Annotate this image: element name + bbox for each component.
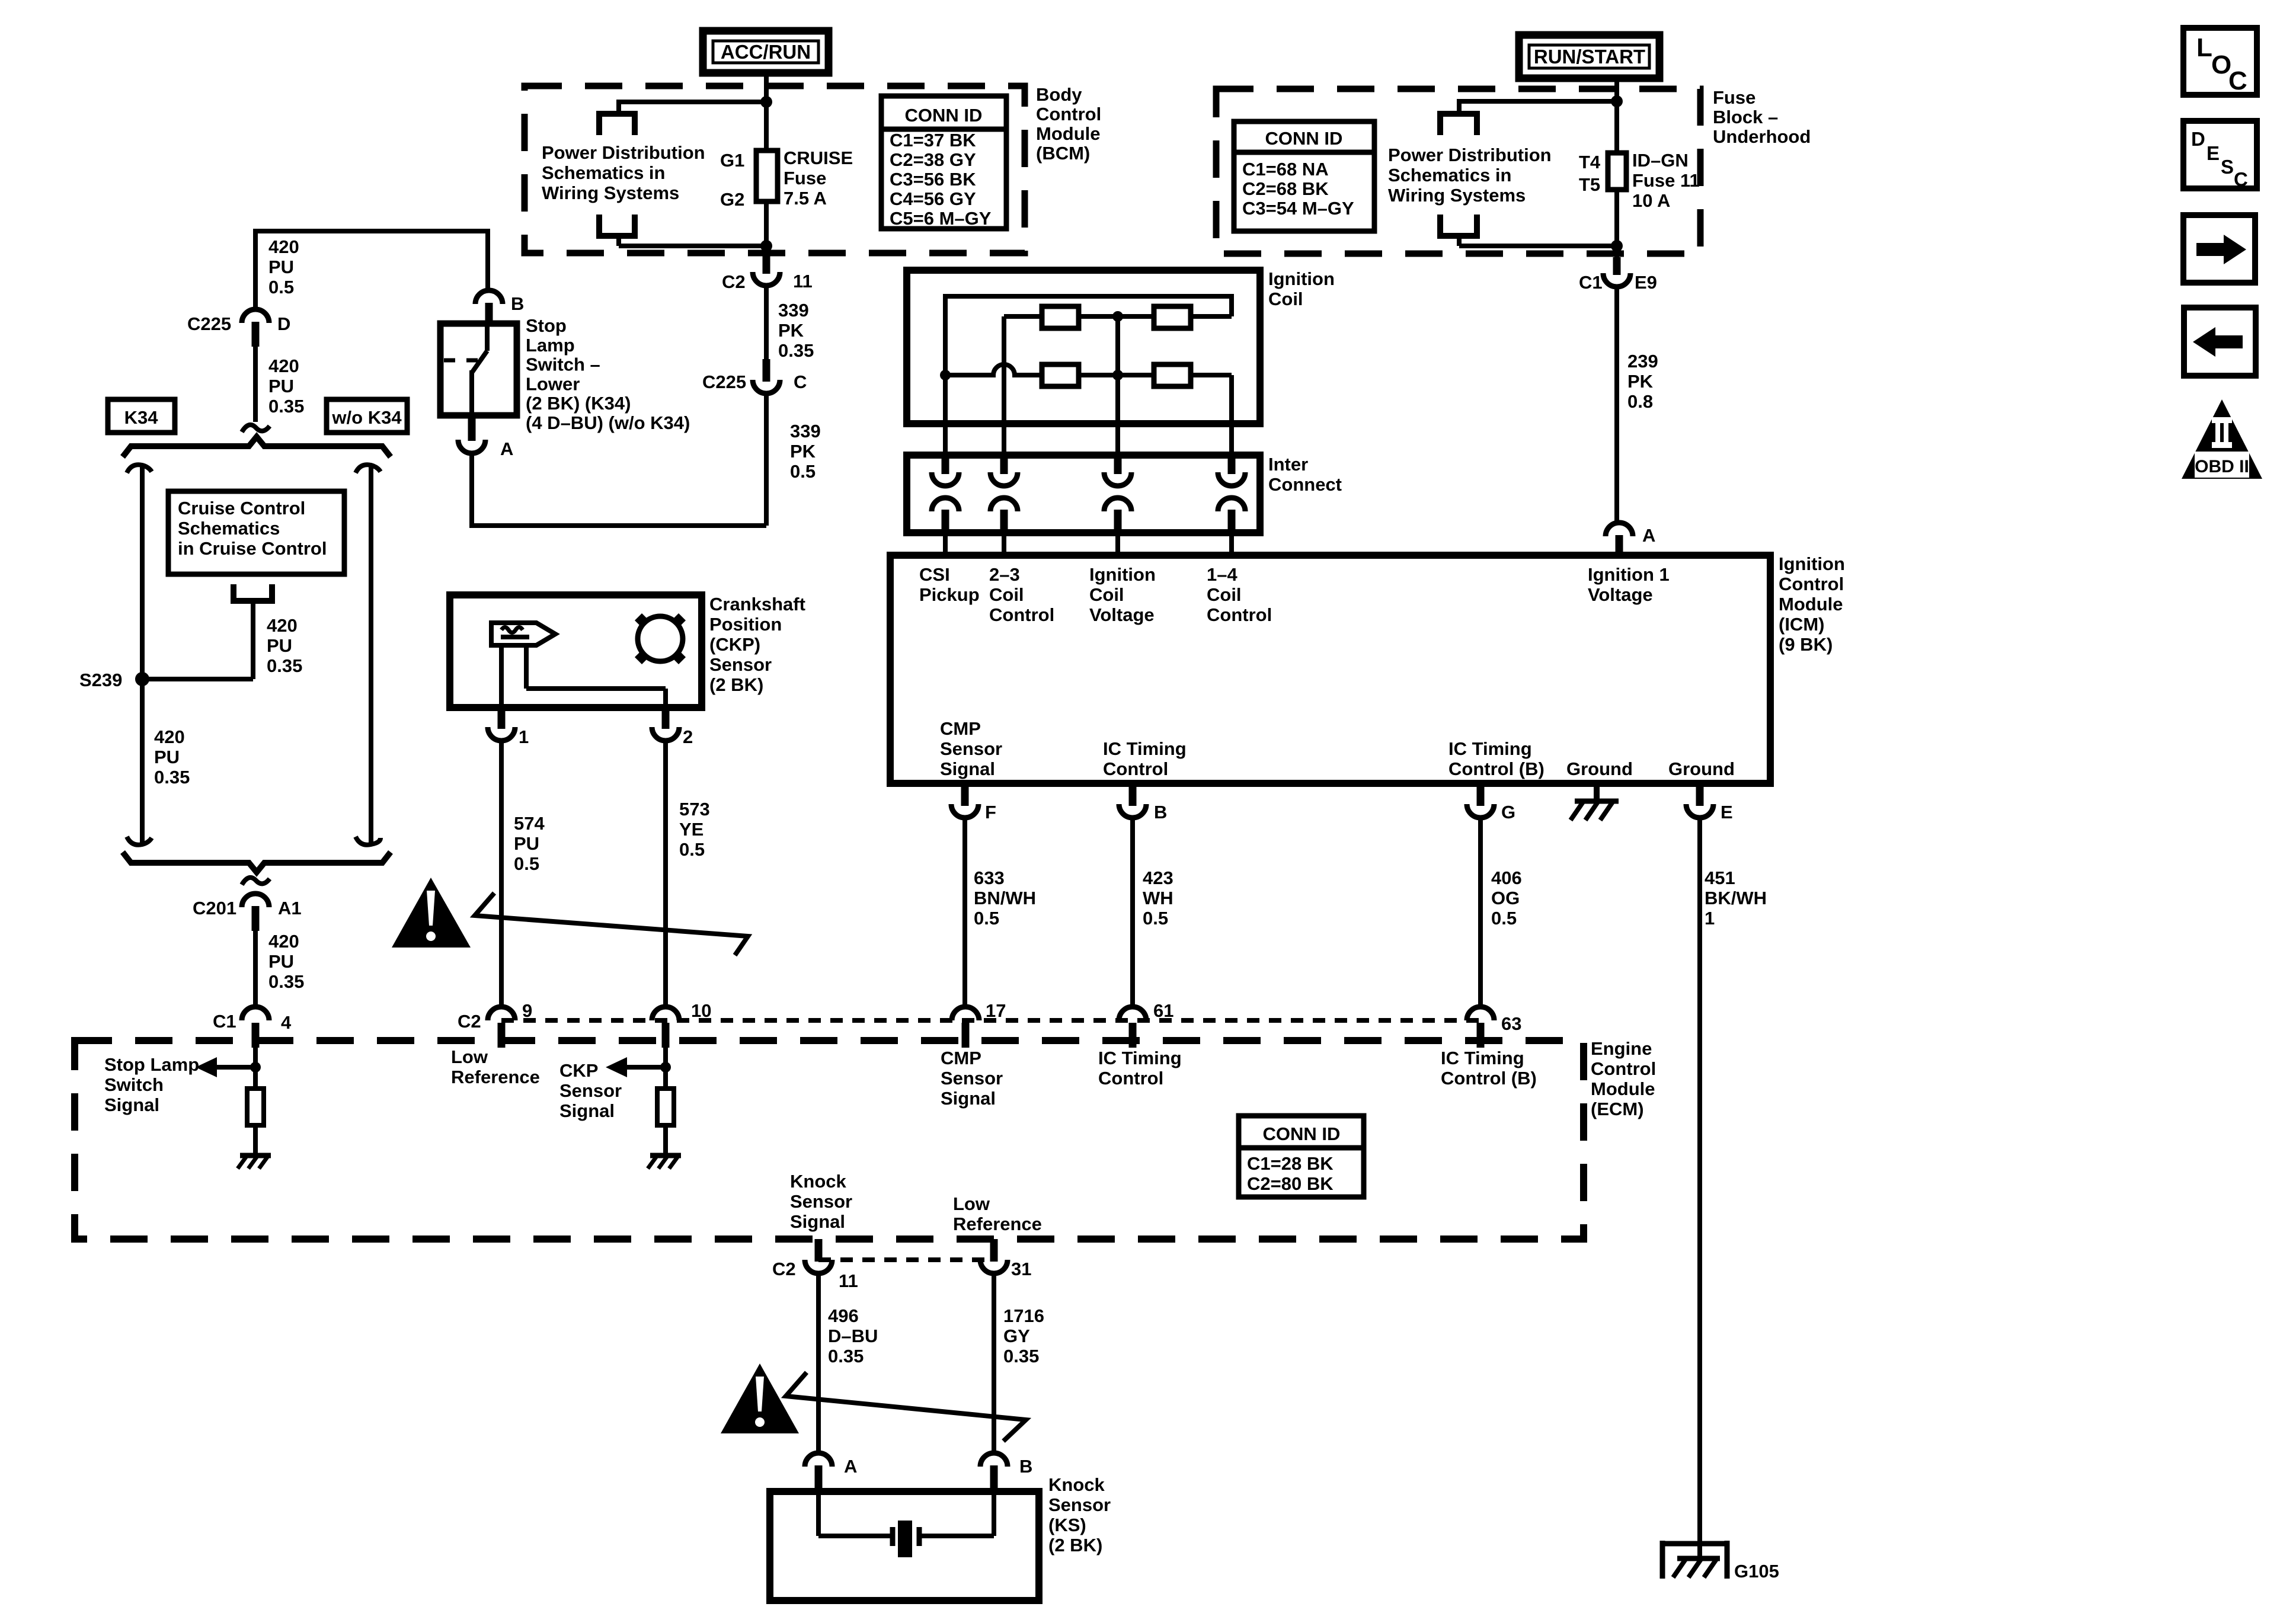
coil wire 1-4 vertical [1229, 375, 1234, 457]
label 573 YE 0.5 [679, 799, 710, 860]
wire loop top descender [616, 100, 621, 114]
icon arrow right [2183, 215, 2255, 283]
svg-text:Coil: Coil [1089, 584, 1124, 605]
svg-text:BK/WH: BK/WH [1705, 888, 1767, 908]
label 339 PK 0.35 [778, 300, 814, 361]
svg-text:(CKP): (CKP) [709, 634, 760, 655]
svg-text:Sensor: Sensor [559, 1080, 622, 1101]
svg-text:RUN/START: RUN/START [1534, 46, 1645, 68]
coil winding R1 [1042, 306, 1079, 328]
svg-text:C: C [794, 372, 807, 392]
svg-text:C2: C2 [458, 1011, 481, 1032]
ECM knock connector line (dotted) [818, 1257, 994, 1262]
CKP wire pin2 [526, 645, 666, 709]
svg-text:7.5 A: 7.5 A [784, 188, 827, 209]
label C [794, 372, 807, 392]
svg-text:CRUISE: CRUISE [784, 148, 853, 168]
option branch left hook bottom [127, 837, 152, 845]
svg-text:PU: PU [268, 951, 294, 972]
svg-text:B: B [1019, 1456, 1032, 1477]
label A [500, 438, 513, 459]
svg-text:A: A [1642, 525, 1655, 546]
svg-text:10: 10 [691, 1000, 711, 1021]
svg-text:Lamp: Lamp [526, 335, 575, 356]
svg-text:A: A [500, 438, 513, 459]
svg-text:(ECM): (ECM) [1591, 1099, 1644, 1119]
wire loop bottom descender [616, 236, 621, 246]
svg-text:Crankshaft: Crankshaft [709, 594, 805, 614]
label A [1642, 525, 1655, 546]
option branch right hook bottom [356, 837, 380, 845]
label C1 [1579, 272, 1603, 293]
svg-text:PK: PK [790, 441, 816, 462]
svg-text:573: 573 [679, 799, 710, 820]
svg-text:E: E [2207, 142, 2220, 164]
warning pointer (CKP wires) [475, 893, 748, 955]
KS wire right [919, 1491, 994, 1536]
svg-text:A1: A1 [278, 898, 302, 918]
svg-text:Control: Control [1207, 604, 1272, 625]
svg-text:1–4: 1–4 [1207, 564, 1237, 585]
coil wire 2-3 top [1004, 314, 1042, 319]
svg-text:D: D [277, 313, 290, 334]
label T4 [1579, 152, 1601, 172]
svg-text:PU: PU [268, 257, 294, 277]
warning triangle (CKP wires) [392, 878, 471, 948]
svg-text:Sensor: Sensor [941, 1068, 1003, 1089]
wire loop bottom horizontal [1459, 244, 1617, 248]
svg-text:Stop Lamp: Stop Lamp [104, 1054, 199, 1075]
splice S239 [135, 672, 149, 686]
connector ICM pin B [1119, 787, 1146, 818]
svg-text:D–BU: D–BU [828, 1326, 878, 1346]
connector CKP pin 2 [652, 708, 679, 741]
svg-text:ID–GN: ID–GN [1632, 150, 1689, 171]
loop bracket bottom (power distribution) [599, 215, 635, 236]
bracket below cruise box [234, 584, 272, 601]
svg-text:(KS): (KS) [1048, 1515, 1086, 1535]
svg-text:Control: Control [1779, 574, 1844, 594]
svg-text:339: 339 [778, 300, 809, 321]
svg-text:CSI: CSI [919, 564, 950, 585]
warning pointer (knock wires) [786, 1372, 1026, 1441]
svg-text:in Cruise Control: in Cruise Control [178, 538, 327, 559]
junction dot [250, 1062, 261, 1073]
svg-text:G105: G105 [1734, 1561, 1779, 1582]
wire 423 WH 0.5 [1130, 818, 1135, 1008]
svg-text:Coil: Coil [1207, 584, 1242, 605]
svg-text:0.35: 0.35 [828, 1346, 864, 1366]
svg-text:C2: C2 [772, 1259, 796, 1279]
label Ignition 1 Voltage [1588, 564, 1670, 605]
label 4 [281, 1012, 292, 1033]
label 339 PK 0.5 [790, 421, 821, 482]
label C2 [722, 271, 746, 292]
KS wire left [818, 1491, 893, 1536]
CKP wire pin1 [499, 645, 504, 709]
engine control module dashed box [75, 1041, 1584, 1239]
connector ECM pin 11 (knock) [805, 1239, 832, 1273]
svg-text:423: 423 [1143, 868, 1173, 888]
wire cruise to S239 [142, 601, 253, 679]
option branch left wire [140, 466, 145, 844]
label IC Timing Control (B) (ICM) [1448, 738, 1544, 779]
svg-text:E9: E9 [1635, 272, 1657, 293]
svg-text:Wiring Systems: Wiring Systems [542, 183, 679, 203]
svg-text:Power Distribution: Power Distribution [542, 142, 705, 163]
interconnect pair 3 [1104, 456, 1131, 558]
coil wire CSI vertical [943, 294, 948, 457]
svg-text:C1: C1 [213, 1011, 236, 1032]
label 420 PU 0.35 [268, 356, 304, 417]
label 239 PK 0.8 [1627, 351, 1658, 412]
label 406 OG 0.5 [1491, 868, 1522, 929]
svg-text:Signal: Signal [940, 758, 995, 779]
crankshaft position sensor box [450, 595, 702, 708]
svg-text:0.5: 0.5 [1143, 908, 1168, 929]
svg-text:E: E [1721, 802, 1733, 822]
connector KS pin A [805, 1453, 832, 1491]
svg-text:ACC/RUN: ACC/RUN [721, 41, 811, 63]
label 633 BN/WH 0.5 [974, 868, 1036, 929]
svg-text:Engine: Engine [1591, 1038, 1652, 1059]
label Fuse Block - Underhood [1713, 87, 1811, 147]
label C2 [772, 1259, 796, 1279]
svg-text:10 A: 10 A [1632, 190, 1670, 211]
coil winding R3 [1042, 364, 1079, 386]
svg-text:Ignition: Ignition [1268, 268, 1335, 289]
svg-text:C1=68 NA: C1=68 NA [1242, 159, 1329, 180]
svg-text:Sensor: Sensor [709, 654, 772, 675]
svg-text:63: 63 [1501, 1013, 1521, 1034]
label B [1154, 802, 1167, 822]
connector C2 pin 11 [753, 256, 780, 286]
ECM internal ground (stop lamp) [238, 1156, 271, 1169]
connector ICM pin E [1686, 787, 1713, 818]
svg-text:Sensor: Sensor [790, 1191, 852, 1212]
svg-text:Signal: Signal [941, 1088, 996, 1109]
switch blade [472, 324, 487, 415]
svg-text:D: D [2191, 128, 2205, 150]
label C1 [213, 1011, 236, 1032]
label S239 [79, 670, 122, 690]
ECM CKP signal wire [663, 1048, 668, 1089]
svg-text:Sensor: Sensor [1048, 1494, 1111, 1515]
svg-text:Cruise Control: Cruise Control [178, 498, 305, 518]
power feed tag ACC/RUN [703, 31, 829, 73]
label T5 [1579, 174, 1600, 195]
label ID-GN Fuse 11 10 A [1632, 150, 1700, 211]
label 574 PU 0.5 [514, 813, 545, 874]
label IC Timing Control (ICM) [1103, 738, 1187, 779]
svg-text:0.5: 0.5 [790, 461, 816, 482]
ignition control module box [890, 555, 1770, 783]
wire loop top horizontal [1459, 99, 1617, 104]
svg-text:Position: Position [709, 614, 782, 635]
connector switch pin A [458, 415, 485, 453]
svg-text:PK: PK [778, 320, 804, 341]
icon OBD II [2182, 399, 2262, 479]
label IC Timing Control (ECM) [1098, 1048, 1182, 1089]
svg-text:C2=38 GY: C2=38 GY [890, 149, 976, 170]
KS piezo element [893, 1521, 919, 1557]
label G [1501, 802, 1515, 822]
warning triangle (knock wires) [721, 1363, 799, 1433]
label 423 WH 0.5 [1143, 868, 1173, 929]
label G2 [720, 189, 744, 210]
option squiggle [242, 425, 270, 432]
label C2 [458, 1011, 481, 1032]
conn id table (ECM) [1239, 1116, 1364, 1197]
svg-text:Ignition: Ignition [1779, 553, 1845, 574]
svg-text:(2 BK): (2 BK) [1048, 1535, 1102, 1555]
svg-text:4: 4 [281, 1012, 292, 1033]
svg-text:Low: Low [451, 1046, 488, 1067]
svg-text:17: 17 [986, 1000, 1006, 1021]
svg-text:C2=68 BK: C2=68 BK [1242, 178, 1329, 199]
brace bottom [123, 852, 391, 872]
svg-text:Low: Low [953, 1193, 990, 1214]
label Knock Sensor (KS) (2 BK) [1048, 1474, 1111, 1555]
connector ICM pin G [1467, 787, 1494, 818]
svg-text:C2: C2 [722, 271, 746, 292]
label CSI Pickup [919, 564, 980, 605]
label Crankshaft Position (CKP) Sensor (2 BK) [709, 594, 805, 695]
svg-text:Knock: Knock [790, 1171, 847, 1192]
svg-text:IC Timing: IC Timing [1448, 738, 1532, 759]
svg-text:C: C [2234, 168, 2248, 190]
wire ACC/RUN to fuse [764, 71, 769, 153]
wire 420 PU 0.35 to ECM [253, 931, 258, 1008]
wire 406 OG 0.5 [1478, 818, 1483, 1008]
label 1 [519, 726, 529, 747]
label Low Reference (pin 31) [953, 1193, 1042, 1234]
label 451 BK/WH 1 [1705, 868, 1767, 929]
wire loop top descender [1457, 99, 1462, 114]
svg-text:Module: Module [1036, 123, 1101, 144]
reference box Cruise Control Schematics [168, 491, 344, 574]
option branch right wire [369, 466, 373, 844]
coil row lower with hop [945, 364, 1042, 375]
svg-text:0.35: 0.35 [267, 655, 302, 676]
svg-text:420: 420 [268, 236, 299, 257]
label C225 [187, 313, 231, 334]
svg-text:C3=54 M–GY: C3=54 M–GY [1242, 198, 1354, 219]
junction dot [1611, 240, 1623, 252]
svg-text:0.5: 0.5 [1491, 908, 1517, 929]
junction dot [660, 1062, 671, 1073]
svg-text:0.5: 0.5 [514, 853, 539, 874]
svg-text:Reference: Reference [451, 1067, 540, 1087]
svg-text:Fuse: Fuse [1713, 87, 1755, 108]
option branch left hook top [127, 465, 152, 473]
svg-text:1716: 1716 [1003, 1305, 1044, 1326]
svg-text:C: C [2228, 66, 2247, 95]
wire fuse to C1 pin E9 [1614, 190, 1619, 258]
ECM internal ground (CKP) [648, 1156, 681, 1169]
svg-text:C225: C225 [702, 372, 746, 392]
svg-text:Module: Module [1591, 1078, 1655, 1099]
CKP pickup symbol [491, 623, 555, 645]
wire 574 PU 0.5 [499, 741, 504, 1008]
label 420 PU 0.35 [154, 726, 190, 788]
wire resistor to ground [253, 1125, 258, 1156]
coil inner bus top [945, 294, 1232, 299]
svg-text:T4: T4 [1579, 152, 1601, 172]
svg-text:(BCM): (BCM) [1036, 143, 1090, 164]
option branch right hook top [356, 465, 380, 473]
svg-text:Control: Control [1098, 1068, 1163, 1089]
svg-text:Control (B): Control (B) [1448, 758, 1544, 779]
svg-text:C1=28 BK: C1=28 BK [1247, 1153, 1334, 1174]
label 496 D-BU 0.35 [828, 1305, 878, 1366]
label CMP Sensor Signal (ICM) [940, 718, 1002, 779]
svg-text:(2 BK) (K34): (2 BK) (K34) [526, 393, 631, 414]
connector switch pin B [475, 290, 503, 324]
svg-text:Inter: Inter [1268, 454, 1308, 475]
svg-text:Power Distribution: Power Distribution [1388, 145, 1552, 165]
dashed box Body Control Module [525, 86, 1025, 253]
CKP signal arrow [606, 1057, 666, 1077]
label Stop Lamp Switch Lower [526, 315, 690, 433]
svg-text:420: 420 [154, 726, 185, 747]
svg-text:C3=56 BK: C3=56 BK [890, 169, 976, 190]
wire 420 PU 0.35 [253, 347, 258, 422]
label Engine Control Module (ECM) [1591, 1038, 1656, 1119]
svg-text:Signal: Signal [790, 1211, 845, 1232]
svg-text:PU: PU [154, 747, 180, 767]
label Ignition Control Module (ICM) (9 BK) [1779, 553, 1845, 655]
wire resistor to ground [663, 1125, 668, 1156]
svg-text:K34: K34 [124, 407, 159, 428]
ECM stop lamp signal wire [253, 1048, 258, 1089]
svg-text:(9 BK): (9 BK) [1779, 634, 1833, 655]
connector ECM pin 10 [652, 1007, 679, 1048]
label E9 [1635, 272, 1657, 293]
svg-text:2: 2 [683, 726, 693, 747]
label Stop Lamp Switch Signal [104, 1054, 199, 1115]
svg-text:0.5: 0.5 [974, 908, 999, 929]
conn id table (BCM) [881, 96, 1006, 229]
label 420 PU 0.35 [267, 615, 302, 676]
svg-text:Signal: Signal [104, 1094, 159, 1115]
svg-text:633: 633 [974, 868, 1005, 888]
icon DESC [2183, 121, 2257, 190]
svg-text:PU: PU [514, 833, 539, 854]
svg-text:(2 BK): (2 BK) [709, 674, 763, 695]
svg-text:C4=56 GY: C4=56 GY [890, 188, 976, 209]
wire RUN/START to fuse [1614, 76, 1619, 155]
svg-text:Stop: Stop [526, 315, 567, 336]
svg-text:PK: PK [1627, 371, 1654, 392]
svg-text:C201: C201 [193, 898, 236, 918]
wire 239 PK 0.8 [1614, 287, 1619, 524]
connector C1 pin 4 [242, 1007, 269, 1048]
svg-text:61: 61 [1153, 1000, 1173, 1021]
svg-text:Control: Control [1591, 1058, 1656, 1079]
svg-text:Body: Body [1036, 84, 1082, 105]
svg-text:CKP: CKP [559, 1060, 598, 1081]
svg-text:Block –: Block – [1713, 107, 1778, 127]
brace top [123, 437, 391, 457]
wire 633 BN/WH 0.5 [962, 818, 967, 1008]
svg-text:C1=37 BK: C1=37 BK [890, 130, 976, 151]
connector C225 pin D [242, 309, 269, 347]
svg-text:Pickup: Pickup [919, 584, 980, 605]
svg-text:B: B [1154, 802, 1167, 822]
svg-text:S239: S239 [79, 670, 122, 690]
svg-text:C5=6 M–GY: C5=6 M–GY [890, 208, 992, 229]
wire to switch B [485, 229, 490, 292]
ground G105 [1662, 1541, 1727, 1579]
svg-text:0.5: 0.5 [679, 839, 705, 860]
wire 496 D-BU 0.35 [816, 1273, 821, 1454]
label CRUISE Fuse 7.5 A [784, 148, 853, 209]
svg-text:L: L [2196, 33, 2212, 62]
svg-text:OBD II: OBD II [2195, 457, 2249, 476]
svg-text:0.35: 0.35 [778, 340, 814, 361]
connector ECM pin 9 [488, 1007, 515, 1048]
svg-text:420: 420 [268, 931, 299, 952]
label Power Distribution Schematics in Wiring Systems (BCM) [542, 142, 705, 203]
svg-text:IC Timing: IC Timing [1441, 1048, 1524, 1068]
svg-text:G2: G2 [720, 189, 744, 210]
svg-text:Lower: Lower [526, 373, 580, 394]
svg-text:Ground: Ground [1668, 758, 1735, 779]
stop lamp signal arrow [196, 1057, 255, 1077]
svg-text:(ICM): (ICM) [1779, 614, 1824, 635]
wire 339 PK 0.5 [764, 393, 769, 526]
svg-text:Schematics in: Schematics in [542, 162, 665, 183]
svg-text:0.5: 0.5 [268, 277, 294, 297]
interconnect box [907, 455, 1260, 533]
option squiggle [242, 878, 270, 885]
svg-text:9: 9 [522, 1000, 532, 1021]
knock sensor box [770, 1491, 1039, 1601]
svg-text:2–3: 2–3 [989, 564, 1020, 585]
coil wire R2 right [1191, 294, 1232, 316]
svg-text:420: 420 [267, 615, 298, 636]
label 2 [683, 726, 693, 747]
label 11 [793, 271, 813, 292]
svg-text:Reference: Reference [953, 1214, 1042, 1234]
svg-text:31: 31 [1011, 1259, 1031, 1279]
svg-text:Ground: Ground [1566, 758, 1633, 779]
label 10 [691, 1000, 711, 1021]
label Ground [1566, 758, 1633, 779]
label 2-3 Coil Control [989, 564, 1054, 625]
wire 451 BK/WH 1 to G105 [1697, 818, 1702, 1558]
svg-text:406: 406 [1491, 868, 1522, 888]
ECM connector line (dotted) [501, 1018, 1480, 1023]
switch contact ticks [444, 359, 478, 363]
svg-text:Signal: Signal [559, 1100, 615, 1121]
svg-text:YE: YE [679, 819, 703, 840]
loop bracket top (power distribution) [1440, 114, 1477, 135]
label G105 [1734, 1561, 1779, 1582]
label Power Distribution Schematics in Wiring Systems (fuse block) [1388, 145, 1552, 206]
label G1 [720, 150, 744, 171]
connector ECM pin 17 [952, 1007, 979, 1048]
icon arrow left [2184, 308, 2256, 376]
wire to stop lamp switch A [472, 452, 766, 528]
icon LOC [2183, 28, 2257, 95]
svg-text:Wiring Systems: Wiring Systems [1388, 185, 1526, 206]
svg-text:Underhood: Underhood [1713, 126, 1811, 147]
label Ignition Coil [1268, 268, 1335, 309]
ignition coil box [907, 270, 1260, 424]
connector C1 pin E9 [1603, 257, 1630, 287]
